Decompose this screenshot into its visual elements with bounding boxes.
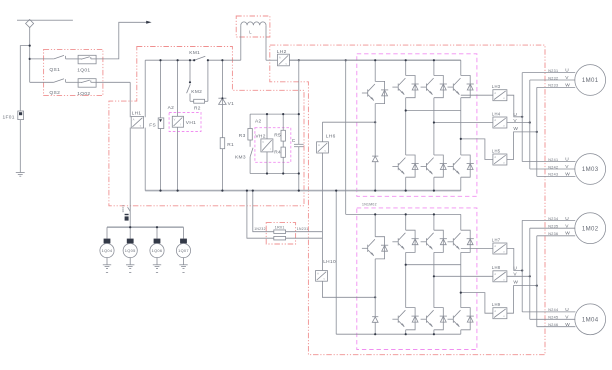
svg-text:R1: R1	[227, 142, 234, 148]
svg-text:VH1: VH1	[186, 120, 196, 126]
svg-text:u: u	[503, 315, 505, 318]
svg-text:V: V	[565, 223, 569, 229]
svg-text:LH10: LH10	[323, 259, 336, 265]
svg-text:1M04: 1M04	[582, 316, 599, 323]
svg-text:1N232: 1N232	[254, 227, 266, 231]
svg-text:A: A	[133, 119, 135, 122]
svg-text:1Q07: 1Q07	[178, 248, 189, 253]
svg-text:V1: V1	[228, 101, 235, 107]
svg-text:A: A	[494, 273, 496, 276]
svg-text:V: V	[565, 164, 569, 170]
svg-text:1M02: 1M02	[582, 225, 599, 232]
svg-text:V: V	[565, 75, 569, 81]
svg-text:u: u	[503, 251, 505, 254]
svg-text:u: u	[324, 278, 326, 281]
svg-text:V: V	[262, 141, 264, 144]
svg-text:U: U	[513, 112, 517, 118]
svg-text:QS1: QS1	[49, 67, 60, 73]
svg-text:u: u	[140, 125, 142, 128]
svg-text:W: W	[565, 172, 570, 178]
svg-text:LH5: LH5	[492, 148, 501, 153]
svg-text:N246: N246	[548, 323, 558, 327]
svg-text:A: A	[317, 273, 319, 276]
svg-text:N242: N242	[548, 165, 558, 169]
svg-text:U: U	[565, 216, 569, 222]
svg-text:U: U	[513, 266, 517, 272]
svg-text:N245: N245	[548, 316, 558, 320]
svg-text:A2: A2	[255, 118, 262, 124]
svg-text:N231: N231	[548, 69, 558, 73]
svg-text:u: u	[286, 62, 288, 65]
svg-text:FS: FS	[149, 122, 156, 128]
svg-text:A: A	[494, 310, 496, 313]
svg-text:W: W	[565, 83, 570, 89]
svg-text:N233: N233	[548, 84, 558, 88]
svg-text:N241: N241	[548, 158, 558, 162]
svg-text:L: L	[249, 29, 252, 34]
svg-text:U: U	[565, 157, 569, 163]
svg-text:LH9: LH9	[492, 302, 501, 307]
svg-text:1M01: 1M01	[582, 77, 599, 84]
svg-text:A: A	[494, 119, 496, 122]
svg-text:1M03: 1M03	[582, 166, 599, 173]
svg-text:u: u	[503, 125, 505, 128]
svg-text:KM2: KM2	[191, 89, 202, 95]
svg-text:u: u	[503, 278, 505, 281]
svg-text:U: U	[565, 307, 569, 313]
svg-text:A: A	[494, 92, 496, 95]
svg-text:N235: N235	[548, 225, 558, 229]
svg-text:1Q06: 1Q06	[152, 248, 163, 253]
svg-text:LH3: LH3	[492, 84, 501, 89]
svg-text:1N1M02: 1N1M02	[362, 203, 377, 207]
svg-text:A2: A2	[168, 105, 175, 111]
svg-text:V: V	[565, 314, 569, 320]
svg-text:I: I	[270, 148, 271, 151]
svg-text:I: I	[180, 124, 181, 127]
svg-text:LH7: LH7	[492, 237, 501, 242]
svg-text:A: A	[494, 245, 496, 248]
svg-text:V: V	[513, 272, 517, 278]
svg-text:1Q04: 1Q04	[102, 248, 113, 253]
svg-text:1Q02: 1Q02	[77, 91, 90, 97]
svg-text:V: V	[174, 119, 176, 122]
svg-text:LH1: LH1	[132, 111, 142, 117]
svg-text:LH4: LH4	[492, 111, 501, 116]
svg-text:N243: N243	[548, 173, 558, 177]
svg-text:R2: R2	[194, 105, 201, 111]
svg-text:A: A	[318, 144, 320, 147]
svg-text:KM1: KM1	[189, 50, 200, 56]
svg-text:VH2: VH2	[255, 134, 265, 140]
svg-text:N244: N244	[548, 308, 558, 312]
svg-text:W: W	[513, 126, 518, 132]
svg-text:R3: R3	[239, 133, 246, 139]
svg-text:V: V	[513, 118, 517, 124]
svg-text:LH6: LH6	[326, 133, 336, 139]
svg-text:1Q01: 1Q01	[77, 68, 90, 74]
svg-text:QS2: QS2	[49, 90, 60, 96]
svg-text:U: U	[565, 68, 569, 74]
svg-text:C: C	[292, 138, 296, 144]
svg-text:1N231: 1N231	[297, 227, 309, 231]
svg-text:1K01: 1K01	[121, 205, 125, 213]
svg-text:W: W	[513, 280, 518, 286]
svg-text:LH2: LH2	[277, 49, 287, 55]
svg-text:LH8: LH8	[492, 265, 501, 270]
svg-text:u: u	[325, 150, 327, 153]
svg-text:A: A	[494, 156, 496, 159]
svg-text:N236: N236	[548, 232, 558, 236]
svg-text:1Q05: 1Q05	[125, 248, 136, 253]
svg-text:N232: N232	[548, 76, 558, 80]
svg-text:A: A	[279, 56, 281, 59]
svg-text:R4: R4	[274, 150, 281, 156]
svg-text:W: W	[565, 231, 570, 237]
svg-text:1R01: 1R01	[275, 225, 285, 229]
svg-text:1F01: 1F01	[3, 114, 15, 120]
svg-text:KM3: KM3	[235, 154, 246, 160]
svg-text:u: u	[503, 97, 505, 100]
svg-text:W: W	[565, 322, 570, 328]
svg-text:N234: N234	[548, 217, 558, 221]
svg-text:u: u	[503, 162, 505, 165]
svg-text:R5: R5	[274, 133, 281, 139]
